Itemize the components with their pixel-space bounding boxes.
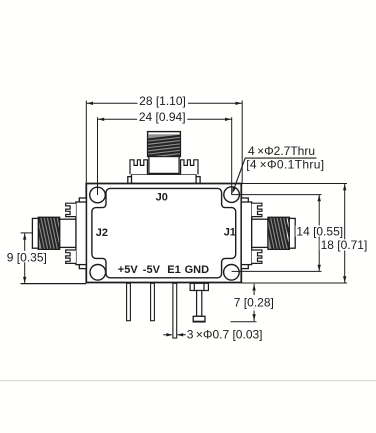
mounting hole bottom-left bbox=[90, 265, 106, 281]
connector J0 base plate bbox=[128, 174, 200, 183]
GND feedthrough pin bbox=[190, 283, 208, 322]
dimension 18 [0.71] body height bbox=[241, 184, 368, 284]
connector J2 base plate bbox=[76, 198, 86, 269]
mounting hole bottom-right bbox=[224, 265, 240, 281]
dimension 7 [0.28] pin length bbox=[231, 284, 275, 322]
connector J2 neck bbox=[60, 219, 76, 247]
lid cover outline with notched corners bbox=[92, 188, 236, 277]
connector J1 upper flange tab bbox=[252, 203, 262, 216]
connector J2 upper flange tab bbox=[66, 203, 76, 216]
svg-text:GND: GND bbox=[185, 264, 210, 276]
svg-text:J0: J0 bbox=[156, 192, 168, 204]
svg-text:-5V: -5V bbox=[143, 264, 161, 276]
svg-text:9 [0.35]: 9 [0.35] bbox=[7, 250, 47, 264]
svg-text:E1: E1 bbox=[167, 264, 180, 276]
connector J2 end cap bbox=[32, 218, 38, 248]
label 3x dia 0.7 pins bbox=[163, 328, 262, 342]
connector J1 base plate bbox=[241, 198, 251, 269]
connector J0 left flange tab bbox=[130, 160, 147, 175]
mounting hole top-right bbox=[224, 187, 240, 203]
leader 4x dia 2.7 thru holes bbox=[232, 144, 324, 194]
connector J0 neck bbox=[149, 150, 179, 173]
svg-text:14 [0.55]: 14 [0.55] bbox=[296, 224, 343, 238]
module body outline bbox=[86, 184, 241, 283]
pin +5V bbox=[127, 283, 131, 320]
connector J1 neck bbox=[252, 219, 268, 247]
svg-text:28 [1.10]: 28 [1.10] bbox=[139, 94, 186, 108]
mounting hole top-left bbox=[90, 187, 106, 203]
pin E1 bbox=[173, 283, 177, 338]
svg-text:+5V: +5V bbox=[118, 264, 139, 276]
dimension 24 [0.94] hole spacing bbox=[98, 110, 232, 195]
connector J0 right flange tab bbox=[181, 160, 198, 175]
connector J1 lower flange tab bbox=[252, 250, 262, 263]
connector J2 lower flange tab bbox=[66, 250, 76, 263]
svg-text:J1: J1 bbox=[224, 227, 236, 239]
svg-text:7 [0.28]: 7 [0.28] bbox=[234, 296, 274, 310]
svg-text:18 [0.71]: 18 [0.71] bbox=[321, 238, 368, 252]
dimension 28 [1.10] overall width bbox=[86, 94, 242, 183]
page separator line bbox=[0, 380, 376, 382]
svg-text:J2: J2 bbox=[96, 227, 108, 239]
connector J2 threaded coupling bbox=[36, 217, 69, 250]
svg-text:24 [0.94]: 24 [0.94] bbox=[139, 110, 186, 124]
connector J1 threaded coupling bbox=[266, 217, 299, 250]
dimension 9 [0.35] connector center height bbox=[6, 233, 87, 284]
svg-text:[4 ×Φ0.1Thru]: [4 ×Φ0.1Thru] bbox=[246, 158, 324, 172]
pin -5V bbox=[151, 283, 155, 320]
connector J0 threaded coupling bbox=[147, 132, 181, 163]
svg-text:4 ×Φ2.7Thru: 4 ×Φ2.7Thru bbox=[248, 144, 315, 158]
svg-text:3 ×Φ0.7 [0.03]: 3 ×Φ0.7 [0.03] bbox=[187, 328, 263, 342]
connector J1 end cap bbox=[289, 218, 295, 248]
dimension 14 [0.55] vertical hole spacing bbox=[232, 195, 344, 272]
